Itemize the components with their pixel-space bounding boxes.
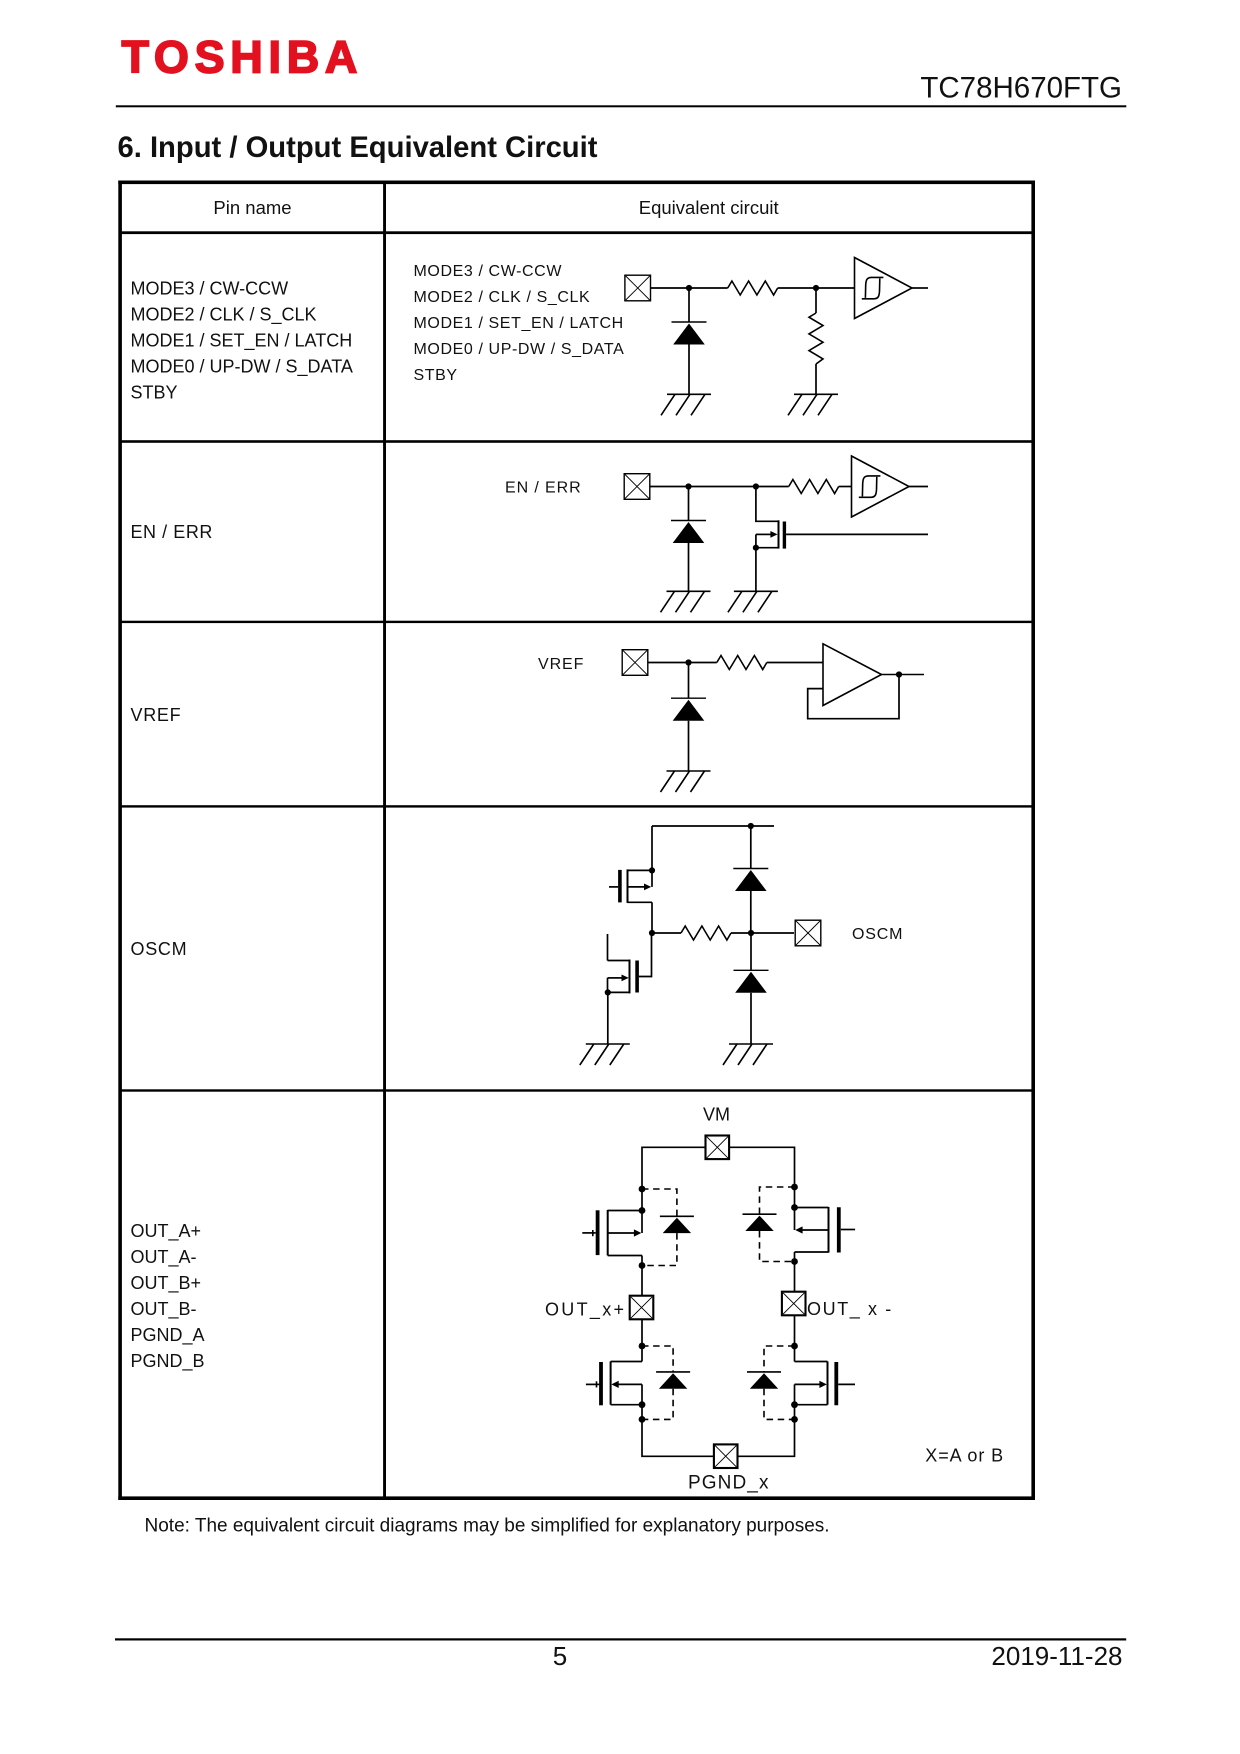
wire node C to node D [689,486,756,488]
pin pad P2 [624,474,650,500]
svg-text:VREF: VREF [538,656,584,673]
wire OUT_x+ pad to Q5 drain [641,1320,643,1362]
node K source-body junction of Q3 [605,989,611,995]
svg-text:TC78H670FTG: TC78H670FTG [920,71,1122,104]
node J junction [649,930,655,936]
diode D4 (clamp to supply) [733,869,768,892]
wire gate of Q1 (ERR drive line) [786,533,928,535]
schmitt buffer U2 [852,456,910,517]
pin pad PGND_x [714,1444,738,1468]
resistor R4 (series) [717,656,767,670]
svg-text:MODE0 / UP-DW / S_DATA: MODE0 / UP-DW / S_DATA [414,341,625,358]
node E source-body junction [753,545,759,551]
op-amp U3 (buffer amplifier) [823,644,882,706]
svg-text:OUT_x+: OUT_x+ [545,1299,626,1320]
svg-text:MODE0 / UP-DW / S_DATA: MODE0 / UP-DW / S_DATA [131,356,353,377]
wire OUT_x- pad to Q7 drain [794,1252,796,1292]
node B junction [813,285,819,291]
svg-text:PGND_A: PGND_A [131,1325,205,1346]
node F junction [685,659,691,665]
node L junction [748,930,754,936]
wire node C down to diode D2 [688,487,690,521]
wire PGND pad to right rail corner [737,1384,794,1456]
ground [728,591,778,612]
pin list MODE3/MODE2/MODE1/MODE0/STBY (left cell) [131,278,353,402]
transistor Q5 (low-side left) [586,1361,642,1405]
wire supply rail (top) [652,825,774,827]
node left-1 [639,1186,646,1193]
svg-text:X=A or B: X=A or B [925,1446,1004,1466]
svg-text:OSCM: OSCM [131,939,188,959]
wire node F down to diode D3 [688,663,690,699]
pin pad OUT_x+ [630,1296,654,1320]
wire Q5 source rail down to PGND corner [642,1384,714,1456]
node right-4 [791,1343,798,1350]
node right-1 [791,1184,798,1191]
body diode D9 of Q7 (dashed branch) [743,1187,795,1262]
svg-text:Equivalent circuit: Equivalent circuit [639,197,779,218]
wire VM rail right [729,1146,794,1148]
body diode D8 of Q6 (dashed branch) [747,1346,795,1419]
wire left rail VM to Q4 source/body [641,1147,643,1234]
body diode D6 of Q4 (dashed branch) [642,1189,694,1266]
ground [580,1044,630,1065]
resistor R3 (series) [789,480,839,494]
wire diode D3 to ground [688,721,690,771]
wire node B to buffer U1 [816,287,855,289]
wire pad to node C [650,486,689,488]
wire VM rail left [642,1146,706,1148]
wire diode D1 to ground [688,345,690,395]
wire node J to resistor R5 [652,932,681,934]
svg-text:MODE3 / CW-CCW: MODE3 / CW-CCW [131,278,289,298]
svg-text:STBY: STBY [131,382,178,402]
wire node F to resistor R4 [689,662,717,664]
wire node A to resistor R1 [689,287,728,289]
node left-4 [639,1343,646,1350]
svg-text:MODE2 / CLK / S_CLK: MODE2 / CLK / S_CLK [131,304,317,325]
transistor Q2 (PMOS current source) [609,869,652,903]
wire diode D2 to ground [688,543,690,591]
svg-text:EN / ERR: EN / ERR [505,479,582,496]
wire right rail VM to Q7 [794,1147,796,1231]
svg-text:Pin name: Pin name [213,197,291,218]
node right-2 (Q7 source) [791,1204,798,1211]
node C junction [685,483,691,489]
ground [661,771,711,792]
transistor Q4 (high-side left) [582,1210,642,1256]
svg-text:VM: VM [703,1105,730,1125]
wire buffer U1 output [912,287,928,289]
wire Q2 drain to node J [651,902,653,933]
pin pad P3 [622,650,648,676]
wire Q6 drain up to OUT_x- pad [794,1316,796,1362]
node left-6 (body-diode) [639,1416,646,1423]
svg-text:STBY: STBY [414,367,458,384]
wire op-amp U3 output [882,674,925,676]
svg-text:OSCM: OSCM [852,926,903,943]
resistor R5 (series) [681,926,731,940]
diode D5 (clamp to ground) [734,970,769,993]
node G output junction [896,671,902,677]
svg-text:TOSHIBA: TOSHIBA [122,31,364,82]
transistor Q3 (NMOS) [608,934,638,993]
node right-3 (drain / body-diode) [791,1258,798,1265]
wire node A down to diode D1 [688,288,690,322]
diode D2 (ESD clamp) [671,521,706,544]
node left-2 (Q4 source) [639,1207,646,1214]
svg-text:5: 5 [553,1641,567,1671]
diode D3 (ESD clamp) [671,698,706,721]
wire feedback loop U3 output to inverting input [808,675,899,719]
wire resistor R5 to node L [731,932,794,934]
wire pad to node F [648,662,689,664]
node H supply junction [748,823,754,829]
pin pad VM [706,1136,730,1160]
svg-text:MODE2 / CLK / S_CLK: MODE2 / CLK / S_CLK [414,289,591,306]
diode D1 (ESD clamp) [672,322,707,345]
wire resistor R2 to ground [815,364,817,394]
wire Q4 drain to OUT_x+ pad [641,1256,643,1296]
wire Q3 source to ground [607,992,609,1044]
wire Q1 source to ground [755,548,757,592]
svg-text:OUT_B-: OUT_B- [131,1299,197,1320]
node left-5 (Q5 source) [639,1401,646,1408]
transistor Q6 (low-side right) [795,1361,856,1405]
wire node D to resistor R3 [756,486,789,488]
pin pad P4 (OSCM) [795,920,821,946]
svg-text:PGND_B: PGND_B [131,1351,205,1372]
svg-text:OUT_A-: OUT_A- [131,1247,197,1268]
svg-text:MODE1 / SET_EN / LATCH: MODE1 / SET_EN / LATCH [131,330,353,351]
svg-text:EN / ERR: EN / ERR [131,522,213,542]
wire diode D4 to node L [750,891,752,933]
wire resistor R3 to buffer U2 [839,486,852,488]
wire pad to node A [651,287,689,289]
svg-text:PGND_x: PGND_x [688,1473,770,1494]
wire supply node H down to diode D4 [750,826,752,869]
resistor R1 (series) [728,281,778,295]
node D junction [753,483,759,489]
transistor Q7 (high-side right) [795,1207,856,1253]
svg-text:OUT_ x -: OUT_ x - [807,1299,893,1320]
svg-text:OUT_A+: OUT_A+ [131,1221,202,1242]
ground [788,394,838,415]
wire diode D5 to ground [750,993,752,1044]
svg-text:VREF: VREF [131,705,182,725]
wire resistor R4 to op-amp U3 [767,662,823,664]
ground [723,1044,773,1065]
wire resistor R1 to node B [778,287,816,289]
wire supply to Q2 source [651,826,653,887]
svg-text:OUT_B+: OUT_B+ [131,1273,202,1294]
pin list OUT_A+/OUT_A-/OUT_B+/OUT_B-/PGND_A/PGND_B (left cell) [131,1221,205,1372]
svg-text:Note: The equivalent circuit d: Note: The equivalent circuit diagrams ma… [145,1516,830,1537]
pin pad P1 [625,275,651,301]
resistor R2 (pull-down) [809,313,823,364]
node I source-body junction of Q2 [649,867,655,873]
body diode D7 of Q5 (dashed branch) [642,1346,690,1419]
node A junction [686,285,692,291]
svg-text:MODE3 / CW-CCW: MODE3 / CW-CCW [414,263,563,280]
transistor Q1 (ERR open-drain NMOS) [756,487,785,549]
wire buffer U2 output [909,486,928,488]
schmitt buffer U1 [855,258,913,319]
pin pad OUT_x- [782,1292,806,1316]
node right-6 (body-diode) [791,1416,798,1423]
wire node L down to diode D5 [750,933,752,970]
wire node B down to resistor R2 [815,288,817,313]
svg-text:2019-11-28: 2019-11-28 [991,1641,1122,1671]
ground [661,394,711,415]
node right-5 (Q6 source) [791,1401,798,1408]
svg-text:MODE1 / SET_EN / LATCH: MODE1 / SET_EN / LATCH [414,315,624,332]
net label MODE3/MODE2/MODE1/MODE0/STBY [414,263,625,384]
wire node J to gate of Q3 [639,933,652,977]
node left-3 (drain / body-diode) [639,1262,646,1269]
ground [661,591,711,612]
svg-text:6. Input / Output Equivalent C: 6. Input / Output Equivalent Circuit [118,132,598,164]
